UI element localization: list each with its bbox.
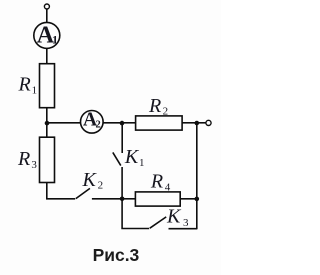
ammeter A2 <box>81 109 104 133</box>
svg-text:3: 3 <box>130 245 140 265</box>
svg-text:Рис.: Рис. <box>93 245 130 265</box>
node Z <box>120 197 125 202</box>
wire <box>169 228 198 230</box>
svg-text:4: 4 <box>165 182 171 194</box>
label K2 <box>82 169 104 192</box>
wire <box>196 123 198 229</box>
switch K2 <box>76 188 90 198</box>
resistor R1 <box>40 64 55 108</box>
resistor R3 <box>40 137 55 182</box>
label R2 <box>148 95 168 118</box>
terminal T1 (top) <box>44 4 49 9</box>
svg-text:2: 2 <box>96 120 101 131</box>
wire <box>103 122 122 124</box>
svg-text:2: 2 <box>163 106 169 118</box>
wire <box>122 199 149 229</box>
ammeter A1 <box>34 22 60 48</box>
node V <box>195 197 200 202</box>
node X <box>45 121 50 126</box>
node Y <box>120 121 125 126</box>
wire <box>46 48 48 63</box>
svg-text:К: К <box>82 169 98 191</box>
wire <box>182 122 197 124</box>
wire <box>122 122 136 124</box>
resistor R4 <box>135 192 180 206</box>
node W <box>195 121 200 126</box>
switch K3 <box>150 217 166 228</box>
svg-text:R: R <box>17 148 30 170</box>
label R4 <box>150 171 171 194</box>
wire <box>46 9 48 22</box>
svg-text:2: 2 <box>98 180 104 192</box>
label R3 <box>17 148 37 171</box>
svg-text:1: 1 <box>52 33 58 47</box>
svg-text:3: 3 <box>183 217 189 229</box>
wire <box>122 198 135 200</box>
switch K1 <box>113 152 121 165</box>
svg-text:3: 3 <box>31 159 37 171</box>
wire <box>121 123 123 153</box>
svg-text:R: R <box>148 95 161 117</box>
wire <box>197 122 206 124</box>
svg-text:К: К <box>166 206 182 228</box>
wire <box>180 198 197 200</box>
svg-text:R: R <box>18 74 31 96</box>
svg-text:К: К <box>124 146 140 168</box>
terminal T2 (right) <box>206 120 211 125</box>
label K3 <box>166 206 189 229</box>
svg-text:1: 1 <box>32 85 37 97</box>
svg-text:1: 1 <box>139 157 145 169</box>
label R1 <box>18 74 38 97</box>
wire <box>46 123 48 137</box>
wire <box>47 183 75 199</box>
wire <box>121 167 123 199</box>
resistor R2 <box>136 116 183 130</box>
wire <box>47 122 81 124</box>
svg-text:R: R <box>150 171 163 193</box>
wire <box>92 198 122 200</box>
wire <box>46 108 48 123</box>
label K1 <box>124 146 145 169</box>
